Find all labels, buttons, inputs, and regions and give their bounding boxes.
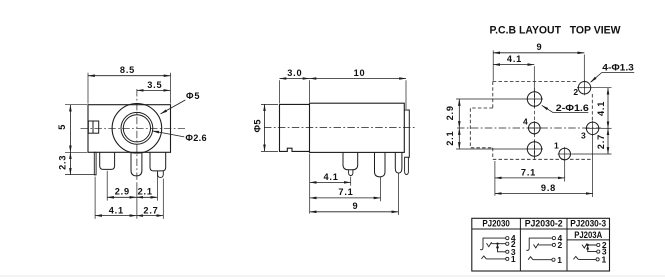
dim 9 side bbox=[310, 211, 399, 213]
side view pin C bbox=[395, 152, 402, 173]
side view pin A tip bbox=[349, 170, 353, 176]
front view narrow pin behind right pin bbox=[158, 171, 164, 178]
svg-text:PJ2030-2: PJ2030-2 bbox=[525, 218, 563, 228]
svg-text:2.7: 2.7 bbox=[596, 134, 606, 149]
PJ2030-2 pin 1 contact bbox=[528, 257, 552, 260]
dim 8.5 bbox=[88, 75, 171, 77]
svg-text:2.1: 2.1 bbox=[138, 186, 153, 196]
svg-text:Φ2.6: Φ2.6 bbox=[185, 133, 207, 143]
side view barrel bbox=[280, 104, 310, 151]
dim 5 bbox=[69, 105, 71, 153]
svg-text:2.9: 2.9 bbox=[445, 105, 455, 120]
svg-text:4.1: 4.1 bbox=[507, 54, 522, 64]
page bottom rule bbox=[0, 275, 665, 277]
svg-text:1: 1 bbox=[554, 141, 560, 151]
dim 2.3 bbox=[69, 152, 71, 174]
PJ2030 pin 3 contact with arrow bbox=[498, 247, 506, 252]
hole phi1.6 top-left bbox=[527, 92, 541, 106]
svg-text:4: 4 bbox=[523, 116, 529, 126]
front view vertical centerline bbox=[136, 89, 138, 183]
dim 9 side extension line bbox=[397, 174, 399, 216]
dim 2.1 bbox=[136, 196, 157, 198]
dim 4.1 extension lines bbox=[94, 177, 96, 219]
front view horizontal centerline bbox=[81, 127, 186, 129]
front view barrel bore circle bbox=[123, 115, 150, 142]
front view barrel ring bbox=[121, 112, 153, 144]
svg-text:2.9: 2.9 bbox=[115, 186, 130, 196]
PJ2030-2 pin 4 contact bbox=[526, 238, 552, 250]
hole 4 bbox=[529, 122, 541, 134]
front view pin center bbox=[131, 152, 142, 176]
dim 5 extension lines bbox=[65, 104, 87, 106]
svg-text:Φ5: Φ5 bbox=[186, 91, 200, 101]
pcb dim 4.1 right extension lines bbox=[592, 87, 612, 89]
pcb dim 7.1 bbox=[495, 177, 565, 179]
front view pin right bbox=[150, 152, 166, 171]
dim 3.0 bbox=[280, 78, 310, 80]
pcb dim 4.1 right bbox=[607, 88, 609, 129]
pcb dim 9.8 bbox=[495, 193, 593, 195]
pcb dim 2.9 bbox=[458, 99, 460, 128]
svg-text:10: 10 bbox=[354, 68, 366, 78]
dim 4.1 side extension lines bbox=[309, 154, 311, 214]
pcb outline bbox=[493, 82, 593, 160]
dim 2.9 extension lines bbox=[106, 171, 108, 201]
front view mounting tab bbox=[88, 121, 98, 133]
pcb dim 2.9 extension lines bbox=[456, 98, 527, 100]
pcb dim 4.1 top extension line bbox=[533, 66, 535, 91]
svg-text:2-Φ1.6: 2-Φ1.6 bbox=[556, 103, 589, 113]
side view right plate bbox=[404, 110, 409, 157]
svg-text:5: 5 bbox=[57, 124, 67, 130]
hole phi1.6 bottom-left bbox=[527, 142, 541, 156]
pcb dim 2.7 right bbox=[607, 128, 609, 154]
table column divider 1 bbox=[519, 218, 521, 271]
svg-text:9.8: 9.8 bbox=[541, 183, 556, 193]
pcb dim 9 extension lines bbox=[492, 50, 494, 80]
svg-text:2: 2 bbox=[558, 240, 563, 250]
svg-text:2.1: 2.1 bbox=[445, 131, 455, 146]
PJ2030 pin 2 contact bbox=[487, 242, 506, 247]
svg-text:4.1: 4.1 bbox=[324, 172, 339, 182]
front view barrel outer circle bbox=[112, 104, 162, 154]
pcb dim 2.1 bbox=[458, 128, 460, 149]
pcb dim 7.1 extension lines bbox=[494, 161, 496, 196]
dim 3.5 bbox=[137, 89, 170, 91]
pcb outline barrel protrusion bbox=[470, 108, 493, 148]
svg-text:2: 2 bbox=[573, 87, 579, 97]
svg-text:3: 3 bbox=[581, 130, 587, 140]
front view pin left bbox=[100, 152, 115, 169]
pcb dim 9.8 extension line bbox=[592, 135, 594, 197]
hole 3 bbox=[586, 122, 598, 134]
dim 7.1 side bbox=[310, 197, 381, 199]
table frame bbox=[472, 218, 610, 271]
side view right leg bbox=[405, 157, 409, 174]
PJ2030-2 pin 2 contact bbox=[534, 243, 553, 248]
hole 1 bbox=[559, 148, 571, 160]
pcb dim 9 bbox=[493, 52, 584, 54]
table header divider bbox=[472, 228, 610, 230]
dim 4.1 side bbox=[310, 181, 351, 183]
svg-text:4.1: 4.1 bbox=[109, 206, 124, 216]
dim 2.9 bbox=[107, 196, 136, 198]
svg-text:9: 9 bbox=[353, 201, 359, 211]
side view horizontal centerline bbox=[264, 127, 416, 129]
dim 7.1 side extension line bbox=[380, 177, 382, 201]
dim 10 bbox=[310, 78, 407, 80]
svg-text:8.5: 8.5 bbox=[120, 65, 135, 75]
PJ2030 junction dot bbox=[496, 243, 498, 245]
svg-text:1: 1 bbox=[511, 254, 516, 264]
PJ203A pin 2 contact bbox=[582, 243, 597, 248]
PJ203A pin 1 contact bbox=[573, 256, 596, 259]
PJ203A junction dot bbox=[587, 244, 589, 246]
dim 2.7 bbox=[136, 215, 163, 217]
dim phi5 side extension lines bbox=[261, 103, 278, 105]
pcb vertical hole centerline bbox=[533, 88, 535, 160]
PJ2030 pin 1 contact bbox=[481, 256, 505, 259]
dim 4.1 bbox=[95, 215, 136, 217]
PJ203A pin 3 contact with arrow bbox=[588, 248, 597, 252]
PJ2030 pin 4 contact bbox=[480, 238, 506, 250]
table column divider 2 bbox=[566, 218, 568, 271]
table PJ203A divider bbox=[567, 239, 610, 241]
svg-text:PJ2030-3: PJ2030-3 bbox=[570, 218, 606, 228]
svg-text:3.5: 3.5 bbox=[147, 80, 162, 90]
hole 2 bbox=[578, 82, 590, 94]
dim 8.5 extension lines bbox=[87, 73, 89, 104]
svg-text:2.7: 2.7 bbox=[143, 206, 158, 216]
svg-text:7.1: 7.1 bbox=[338, 187, 353, 197]
dim phi5 side bbox=[264, 104, 266, 151]
dim 3.0/10 extension lines bbox=[279, 80, 281, 103]
pcb horizontal centerline bbox=[457, 127, 601, 129]
side view body bbox=[310, 103, 405, 152]
side view pin A bbox=[343, 152, 358, 169]
svg-text:1: 1 bbox=[557, 255, 562, 265]
pcb dim 4.1 top bbox=[493, 64, 534, 66]
svg-text:P.C.B LAYOUT TOP VIEW: P.C.B LAYOUT TOP VIEW bbox=[490, 25, 622, 37]
svg-text:3.0: 3.0 bbox=[287, 68, 302, 78]
svg-text:4-Φ1.3: 4-Φ1.3 bbox=[602, 63, 634, 73]
svg-text:PJ2030: PJ2030 bbox=[482, 218, 510, 228]
svg-text:1: 1 bbox=[602, 255, 607, 265]
side view pin B bbox=[375, 152, 386, 177]
dim 2.3 bottom extension line bbox=[65, 174, 96, 176]
svg-text:PJ203A: PJ203A bbox=[574, 230, 602, 240]
svg-text:9: 9 bbox=[537, 42, 543, 52]
front view body bbox=[88, 105, 171, 153]
svg-text:Φ5: Φ5 bbox=[252, 119, 262, 132]
front view side pin (thin) bbox=[94, 152, 96, 175]
svg-text:7.1: 7.1 bbox=[521, 167, 536, 177]
svg-text:2.3: 2.3 bbox=[58, 155, 68, 170]
svg-text:4.1: 4.1 bbox=[596, 101, 606, 116]
